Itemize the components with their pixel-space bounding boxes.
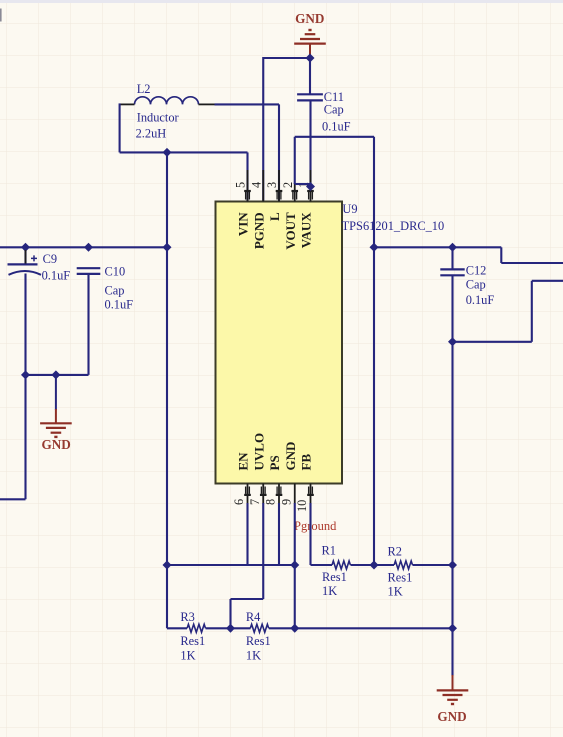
label L2 comment [137,111,180,125]
svg-text:PS: PS [267,455,282,470]
pin 2 VOUT stub [291,183,298,202]
wire bottom gnd rail [26,374,89,376]
wire L2 right terminal [199,103,215,105]
svg-text:0.1uF: 0.1uF [322,120,351,134]
wire L2 left terminal [120,103,135,105]
wire pin10 down [309,503,311,565]
wire pin7 jog left [231,598,264,600]
svg-text:VOUT: VOUT [283,212,298,250]
pin name EN [236,452,251,471]
net label Pground [294,519,337,533]
wire right rail step down [500,247,502,263]
pin number 5 [234,182,248,188]
node junction pin9/EN row [290,561,299,570]
wire right rail [374,246,501,248]
resistor R1 [332,561,350,569]
svg-text:C10: C10 [105,265,126,279]
pin 10 FB stub [307,484,314,504]
pin name VOUT [283,212,298,250]
pin number 1 [297,182,311,188]
node junction R row/right vertical [448,624,457,633]
node junction C9/gnd rail [21,370,30,379]
svg-text:PGND: PGND [251,212,266,249]
node junction pin7/R row [226,624,235,633]
svg-text:10: 10 [295,500,309,512]
decorative left-edge sliver [0,9,2,22]
pin number 10 [295,500,309,512]
ground GND (bottom right) [437,690,469,724]
inductor L2 [135,97,199,105]
wire gnd stem (left) [55,375,57,423]
op-amp U9 TPS61201_DRC_10 body [216,202,343,484]
wire L2 bottom run to pin 5 [120,151,248,153]
ground GND (top power port) [294,11,326,43]
wire C12 branch exit [532,280,563,282]
wire R4 to right [269,627,453,629]
pin name PGND [251,212,266,249]
wire C10 bottom stem [87,274,89,375]
resistor R2 [394,561,412,569]
label R1 comment [322,570,347,584]
pin number 6 [232,499,246,505]
node junction riser/right rail [370,243,379,252]
node junction pin9/R row [290,624,299,633]
wire R3-R4 link [206,627,251,629]
wire pin7 drop [229,599,231,628]
node junction bus/EN row [163,561,172,570]
wire C12 top stem [451,247,453,269]
node junction R1/R2 [370,561,379,570]
svg-text:GND: GND [283,442,298,471]
svg-text:Cap: Cap [466,278,486,292]
svg-text:GND: GND [437,709,466,724]
wire EN/PS row [167,564,295,566]
label C10 comment [105,284,125,298]
svg-text:Cap: Cap [105,284,125,298]
label L2 value [136,127,167,141]
node junction rail/vertical bus [163,243,172,252]
wire VOUT drop to feedback [373,137,375,565]
label C9 designator [43,252,57,266]
svg-text:C12: C12 [466,263,487,277]
svg-text:3: 3 [265,182,279,188]
node junction right rail/C12 [448,243,457,252]
wire R1-R2 link [351,564,395,566]
svg-text:R4: R4 [246,610,260,624]
wire pin6 down [246,503,248,565]
pin number 3 [265,182,279,188]
pin 7 UVLO stub [260,484,267,504]
label C9 value [42,268,71,282]
pin name VIN [236,212,251,236]
svg-text:Cap: Cap [324,103,344,117]
svg-text:1K: 1K [322,584,337,598]
svg-text:1K: 1K [180,649,195,663]
wire pin2-pin1 tie [295,183,311,185]
svg-text:R2: R2 [388,545,402,559]
wire C12 branch up [531,281,533,342]
wire C11 bottom to pin 1 [309,100,311,184]
svg-text:VAUX: VAUX [299,212,314,248]
wire VOUT riser [294,137,296,184]
wire from top junction left [263,57,310,59]
decorative top band [0,0,563,3]
pin name UVLO [251,433,266,471]
wire C9 bottom stem [24,274,26,375]
pin 6 EN stub [244,484,251,504]
pin 3 L stub [276,170,283,202]
pin name PS [267,455,282,470]
pin 1 VAUX stub [307,170,314,202]
wire VIN vertical bus [166,152,168,628]
label U9 designator [342,202,357,216]
wire C12 branch right [453,341,532,343]
label L2 designator [137,82,151,96]
wire C9 line continues down [24,375,26,499]
label R2 designator [388,545,402,559]
wire down to pin 3 [278,104,280,200]
svg-text:Pground: Pground [294,519,337,533]
label R3 designator [180,610,194,624]
pin number 7 [248,499,262,505]
pin name VAUX [299,212,314,248]
svg-text:FB: FB [299,454,314,471]
wire down to pin 5 [246,152,248,200]
svg-text:8: 8 [264,499,278,505]
capacitor C9 (polarized) [8,250,42,291]
wire L2 output to pin 3 corner [215,103,280,105]
svg-text:1K: 1K [388,585,403,599]
svg-text:Res1: Res1 [180,634,205,648]
svg-text:VIN: VIN [236,212,251,236]
wire GND stem (top) [309,44,311,57]
label C11 comment [324,103,344,117]
wire L2 left down [119,103,121,152]
label C12 designator [466,263,487,277]
label C11 value [322,120,351,134]
capacitor C12 [440,269,464,275]
wire FB row left [311,564,333,566]
svg-text:U9: U9 [342,202,357,216]
svg-text:L: L [267,212,282,221]
pin number 2 [281,182,295,188]
svg-text:R1: R1 [322,544,336,558]
node junction C12 branch [448,337,457,346]
pin name GND [283,442,298,471]
wire top junction down to C11 [309,58,311,94]
svg-text:5: 5 [234,182,248,188]
ground GND (left) [40,423,72,452]
pin name FB [299,454,314,471]
wire R3 row left [167,627,187,629]
node junction rail/C10 [84,243,93,252]
node junction under L2 [163,148,172,157]
svg-text:UVLO: UVLO [251,433,266,471]
pin 9 GND stub [294,484,296,504]
svg-text:GND: GND [41,437,70,452]
svg-text:Res1: Res1 [388,571,413,585]
label C12 comment [466,278,486,292]
label R2 value [388,585,403,599]
svg-text:0.1uF: 0.1uF [42,268,71,282]
pin number 9 [279,499,293,505]
wire pin9 down [294,503,296,628]
capacitor C10 [77,268,101,274]
pin 4 PGND stub [262,170,264,202]
node junction rail/C9 [21,243,30,252]
resistor R4 [250,624,268,632]
wire down to pin 4 [262,57,264,201]
pin 8 PS stub [276,484,283,504]
svg-text:1K: 1K [246,649,261,663]
svg-text:C9: C9 [43,252,57,266]
label R1 designator [322,544,336,558]
capacitor C11 [297,94,323,100]
resistor R3 [187,624,205,632]
label C10 designator [105,265,126,279]
svg-text:Inductor: Inductor [137,111,180,125]
label R4 designator [246,610,260,624]
label C11 designator [324,90,344,104]
label U9 comment [342,219,445,233]
wire VOUT top run [295,136,374,138]
svg-text:0.1uF: 0.1uF [105,297,134,311]
wire exit left [0,498,26,500]
wire R2 to right vertical [413,564,453,566]
pin name L [267,212,282,221]
label C12 value [466,293,495,307]
svg-text:6: 6 [232,499,246,505]
label R4 comment [246,634,271,648]
svg-text:EN: EN [236,452,251,471]
svg-text:9: 9 [279,499,293,505]
node junction R2/right vertical [448,561,457,570]
svg-text:L2: L2 [137,82,151,96]
pin 5 VIN stub [244,170,251,202]
wire pin7 down [262,503,264,599]
node junction at top GND [306,54,315,63]
wire pin8 down [278,503,280,565]
svg-text:Res1: Res1 [246,634,271,648]
svg-text:R3: R3 [180,610,194,624]
wire C9 top stem [24,247,26,264]
label R1 value [322,584,337,598]
svg-text:0.1uF: 0.1uF [466,293,495,307]
label R3 comment [180,634,205,648]
svg-text:2.2uH: 2.2uH [136,127,167,141]
label R4 value [246,649,261,663]
svg-text:GND: GND [295,11,324,26]
wire right rail exit [501,262,563,264]
svg-text:2: 2 [281,182,295,188]
wire left VIN rail [0,246,167,248]
svg-text:Res1: Res1 [322,570,347,584]
label R3 value [180,649,195,663]
svg-text:4: 4 [249,182,263,188]
label C10 value [105,297,134,311]
svg-text:7: 7 [248,499,262,505]
wire right vertical [451,275,453,689]
svg-text:TPS61201_DRC_10: TPS61201_DRC_10 [342,219,445,233]
pin number 4 [249,182,263,188]
node junction tie/pin1 [306,182,315,191]
node junction gnd stem [51,370,60,379]
label R2 comment [388,571,413,585]
pin number 8 [264,499,278,505]
